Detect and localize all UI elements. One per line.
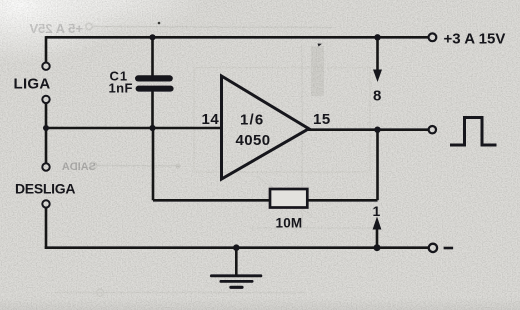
- terminal circle LIGA bottom: [42, 96, 49, 103]
- junction node capacitor top: [149, 34, 155, 40]
- ghost rectangle around gate: [194, 68, 370, 173]
- stray ink speck: [158, 22, 161, 25]
- pin 1 arrowhead: [373, 217, 382, 230]
- wire: left drop from rail to LIGA: [45, 36, 48, 62]
- wire: pin 8 stem from top rail: [376, 37, 379, 71]
- terminal circle LIGA top: [42, 62, 49, 69]
- resistor R1 body: [270, 189, 307, 208]
- ghost smudge blob: [311, 46, 324, 96]
- output pulse waveform symbol: [450, 118, 497, 146]
- svg-text:10M: 10M: [276, 216, 303, 231]
- wire: output line pin 15: [306, 128, 428, 131]
- terminal circle +V supply: [429, 33, 437, 41]
- svg-text:15: 15: [313, 111, 331, 128]
- junction node capacitor/input: [149, 125, 155, 131]
- svg-text:1/6: 1/6: [240, 112, 264, 129]
- ground symbol: [210, 274, 262, 289]
- buffer gate U1 triangle 1/6 4050: [222, 76, 309, 179]
- ghost diagonal: [256, 176, 312, 216]
- ghost circle SAIDA: [90, 162, 96, 168]
- ghost inner vertical line: [301, 45, 303, 228]
- wire: feedback vertical left: [152, 128, 155, 200]
- ghost bottom wire: [55, 292, 305, 294]
- ghost lower horizontal line: [250, 227, 377, 229]
- wire: ground stem: [235, 248, 238, 275]
- wire: DESLIGA lower lead to bottom rail: [45, 208, 48, 249]
- wire: bottom rail: [45, 246, 429, 249]
- junction node ground on bottom rail: [233, 244, 240, 251]
- svg-text:8: 8: [373, 88, 381, 105]
- junction node output/feedback: [374, 127, 380, 133]
- svg-text:14: 14: [202, 111, 220, 128]
- terminal circle DESLIGA bottom: [42, 200, 49, 207]
- svg-text:4050: 4050: [236, 132, 271, 149]
- junction node pin1 on bottom rail: [374, 244, 381, 251]
- wire: capacitor bottom lead: [151, 92, 154, 129]
- wire: feedback horizontal right of resistor: [307, 199, 377, 202]
- wire: top supply rail: [46, 36, 428, 39]
- terminal circle minus supply: [429, 244, 437, 252]
- svg-text:LIGA: LIGA: [14, 76, 51, 93]
- ghost wire SAIDA: [97, 165, 180, 168]
- ghost terminal circle top: [86, 23, 92, 29]
- svg-text:1: 1: [373, 203, 381, 219]
- junction node input-left: [43, 125, 49, 131]
- ghost wire top: [93, 27, 332, 28]
- ghost junction dot SAIDA: [175, 163, 180, 168]
- svg-text:+3 A 15V: +3 A 15V: [444, 30, 506, 47]
- ghost bleed-through text "+5 A 25V" (mirrored): [29, 21, 83, 36]
- ghost bottom circle: [96, 289, 103, 296]
- wire: feedback vertical right: [376, 130, 379, 201]
- wire: DESLIGA upper lead: [45, 128, 48, 163]
- wire: between LIGA switch and input node: [45, 103, 48, 129]
- svg-text:DESLIGA: DESLIGA: [15, 181, 75, 197]
- junction node pin8 on top rail: [374, 34, 380, 40]
- wire: capacitor top lead: [151, 37, 154, 75]
- wire: pin 1 stem from bottom rail: [376, 229, 379, 248]
- ghost text SAIDA (mirrored): [62, 161, 96, 173]
- capacitor C1 plates: [135, 75, 174, 91]
- label minus sign: [444, 247, 454, 250]
- wire: input line to pin 14: [45, 127, 222, 130]
- svg-text:1nF: 1nF: [109, 80, 133, 95]
- wire: feedback horizontal left of resistor: [153, 199, 270, 202]
- terminal circle DESLIGA top: [42, 163, 49, 170]
- stray ink tick: [318, 44, 323, 47]
- pin 8 arrowhead: [373, 70, 382, 83]
- terminal circle output: [429, 126, 436, 133]
